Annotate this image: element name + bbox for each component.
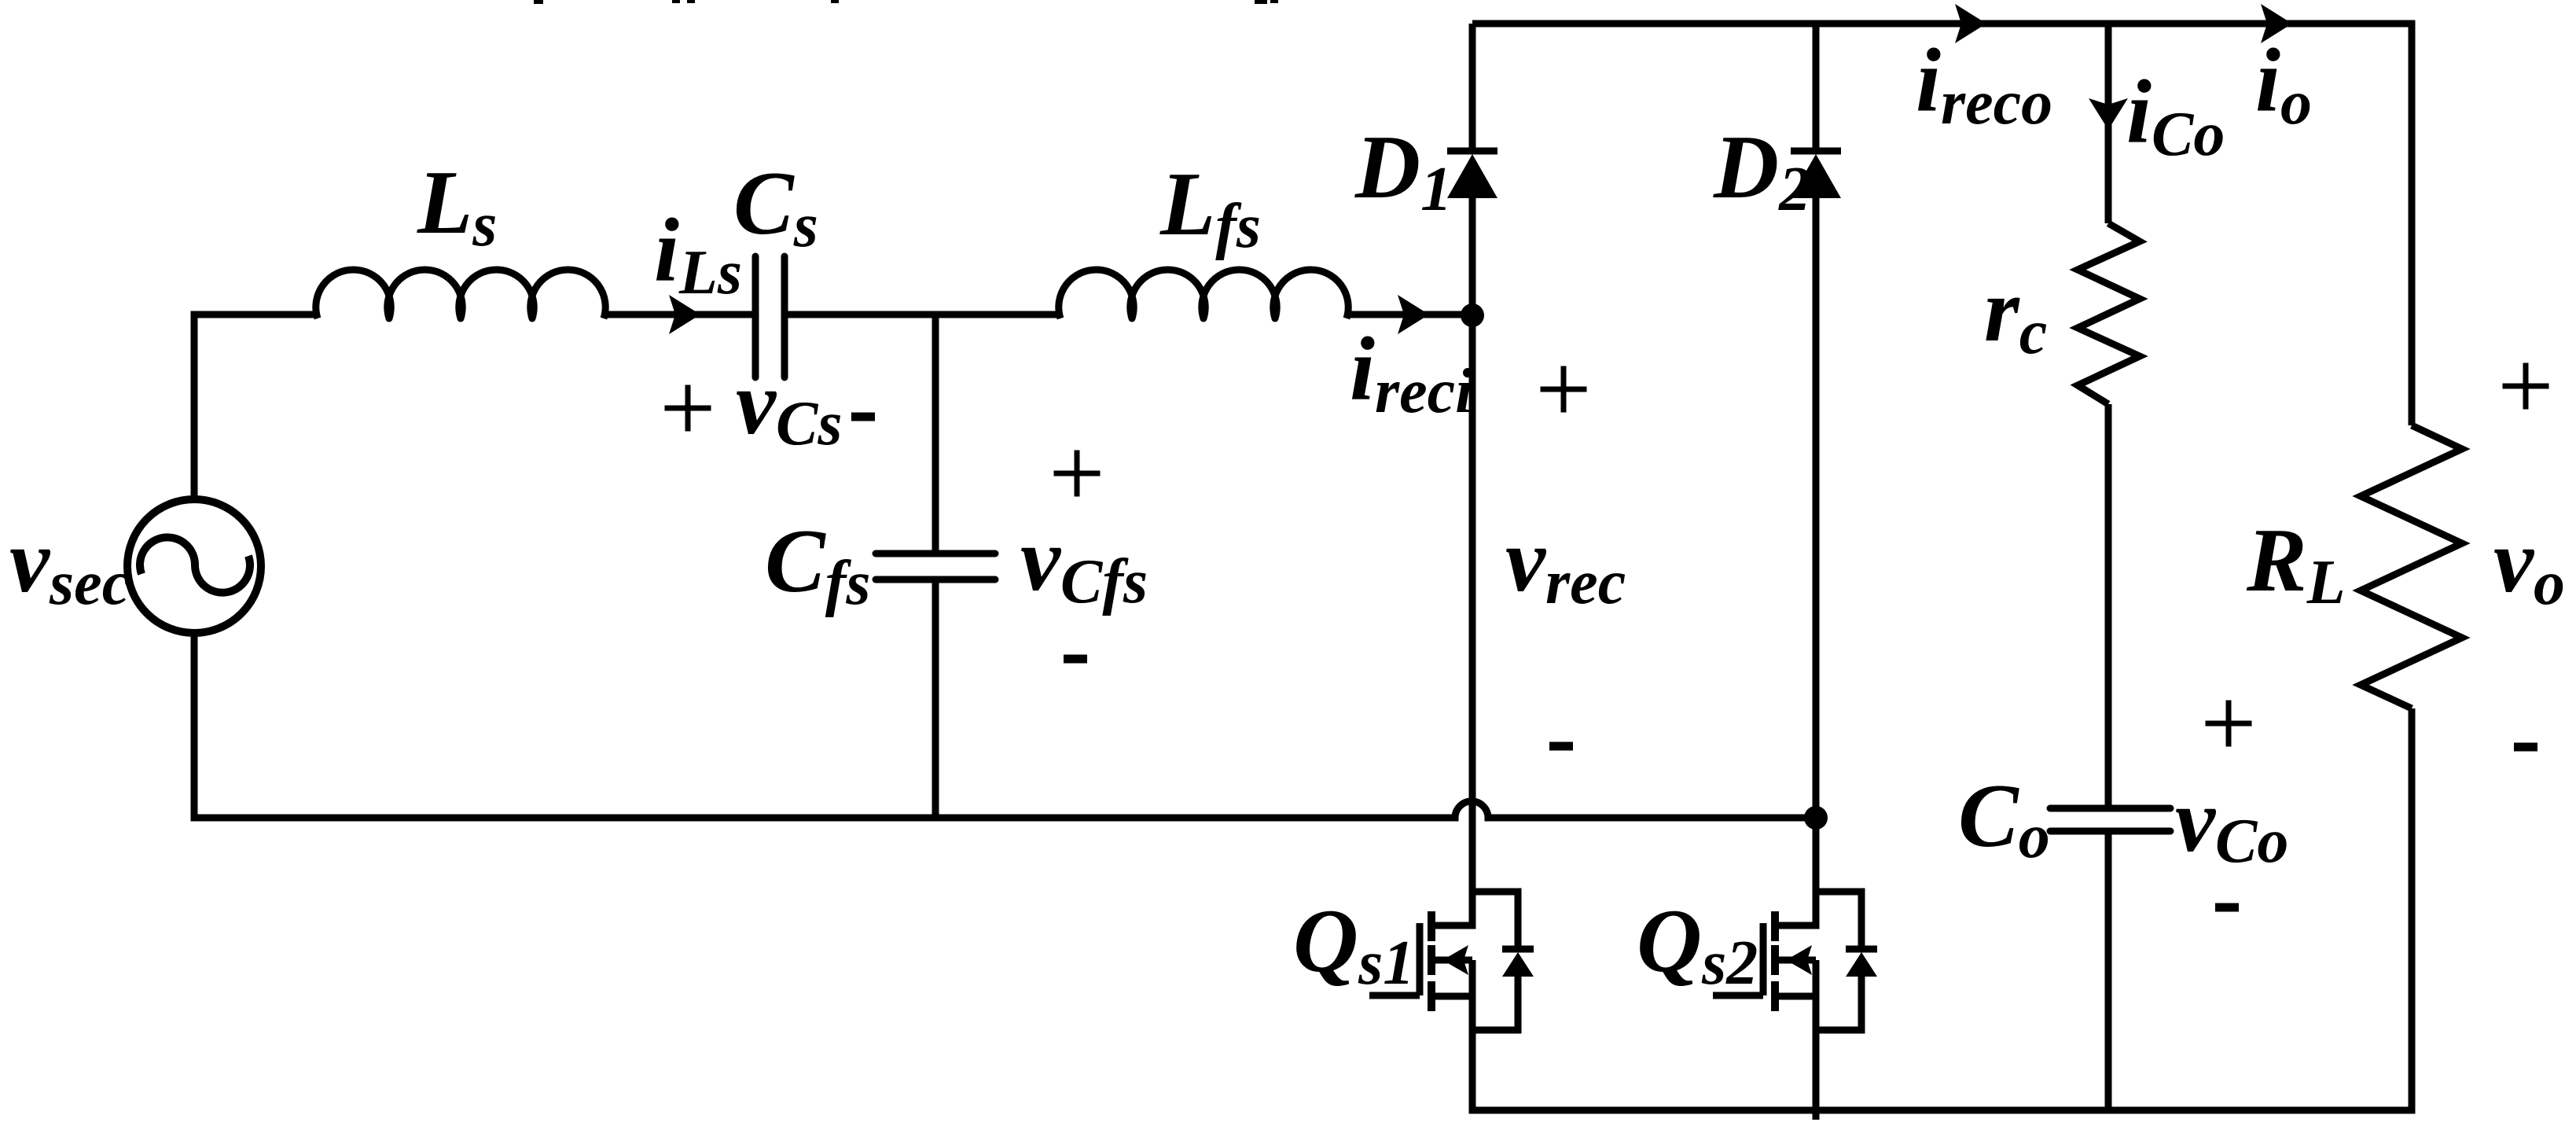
arrow i_o: [2261, 4, 2292, 43]
Qs1 body diode triangle: [1502, 952, 1534, 977]
top edge text fragments: [534, 0, 543, 4]
transistor Qs1 source lead: [1435, 993, 1472, 1000]
plus v_rec: [1541, 366, 1587, 413]
transistor Qs2 body diode branch: [1816, 892, 1877, 1030]
capacitor Cs plates: [755, 256, 785, 377]
wire top-left from source to Ls: [194, 315, 318, 500]
wire bottom-left rail with hop over D1 branch: [194, 635, 1816, 818]
transistor Qs2 source vertical: [1813, 960, 1820, 1120]
wire top rail and right branch down to RL: [1472, 24, 2412, 425]
diode D1 triangle: [1447, 154, 1497, 198]
wire Co branch upper: [2105, 24, 2112, 223]
wire Lfs to node: [1347, 311, 1472, 318]
AC source vsec circle: [127, 499, 261, 633]
diode D1 cathode bar: [1447, 148, 1497, 155]
inductor Ls: [316, 270, 605, 318]
resistor rc zigzag: [2078, 223, 2140, 404]
capacitor Cfs plates: [876, 554, 995, 580]
diode D2 cathode bar: [1791, 148, 1841, 155]
transistor Qs2 gate lead: [1713, 992, 1763, 999]
plus v_o: [2503, 363, 2549, 410]
wire Ls to Cs: [604, 311, 752, 318]
transistor Qs2 source lead: [1779, 993, 1816, 1000]
transistor Qs1 source connection line: [1435, 957, 1472, 964]
node dot i_reci junction: [1461, 304, 1484, 327]
minus v_Cs: [851, 413, 875, 421]
transistor Qs1 gate lead: [1369, 992, 1420, 999]
arrow i_Ls: [669, 295, 700, 334]
transistor Qs2 channel segments: [1771, 911, 1779, 1011]
transistor Qs1 gate bar: [1417, 923, 1424, 995]
arrow i_reco: [1955, 4, 1986, 43]
arrow i_reci: [1398, 295, 1429, 334]
transistor Qs1 channel segments: [1428, 911, 1435, 1011]
plus v_Cfs: [1054, 451, 1101, 497]
minus v_Co: [2215, 903, 2239, 912]
wire Cs to Lfs: [788, 311, 1060, 318]
transistor Qs2 gate bar: [1760, 923, 1767, 995]
inductor Lfs: [1059, 270, 1348, 318]
wire Cfs branch vertical lower: [932, 583, 939, 818]
transistor Qs1 body diode branch: [1472, 892, 1534, 1030]
wire rc to Co: [2105, 404, 2112, 805]
transistor Qs2 source connection line: [1779, 957, 1816, 964]
plus v_Co: [2206, 701, 2252, 747]
minus v_o: [2514, 743, 2537, 752]
AC source sine symbol: [140, 537, 250, 592]
wire Cfs branch vertical upper: [932, 315, 939, 554]
node dot D2 bottom junction: [1804, 806, 1828, 830]
minus v_Cfs: [1064, 655, 1087, 664]
diode D1 branch vertical: [1435, 24, 1472, 925]
transistor Qs1 arrow: [1442, 945, 1468, 975]
transistor Qs1 source vertical and bottom rail: [1472, 708, 2412, 1110]
Qs2 body diode triangle: [1846, 952, 1877, 977]
wire Co to bottom rail: [2105, 834, 2112, 1110]
transistor Qs2 arrow: [1786, 945, 1812, 975]
capacitor Co plates: [2050, 808, 2170, 831]
diode D2 branch vertical: [1779, 24, 1816, 925]
resistor RL zigzag: [2361, 425, 2462, 708]
diode D2 triangle: [1791, 154, 1841, 198]
arrow i_Co down: [2089, 98, 2128, 130]
plus v_Cs: [665, 385, 711, 432]
minus v_rec: [1549, 742, 1573, 751]
